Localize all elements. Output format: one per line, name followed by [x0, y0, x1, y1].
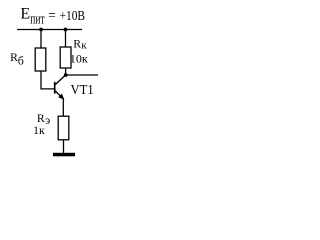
svg-text:R: R: [73, 37, 81, 50]
svg-text:10к: 10к: [70, 53, 88, 65]
svg-text:VT1: VT1: [71, 82, 94, 97]
svg-text:пит: пит: [30, 10, 45, 27]
svg-text:б: б: [18, 53, 24, 67]
svg-text:R: R: [37, 112, 45, 125]
svg-text:=: =: [48, 7, 56, 22]
svg-text:1к: 1к: [33, 125, 45, 137]
svg-text:к: к: [81, 40, 87, 52]
svg-text:+10В: +10В: [60, 8, 85, 23]
svg-text:Е: Е: [20, 6, 30, 23]
svg-text:э: э: [45, 115, 50, 127]
